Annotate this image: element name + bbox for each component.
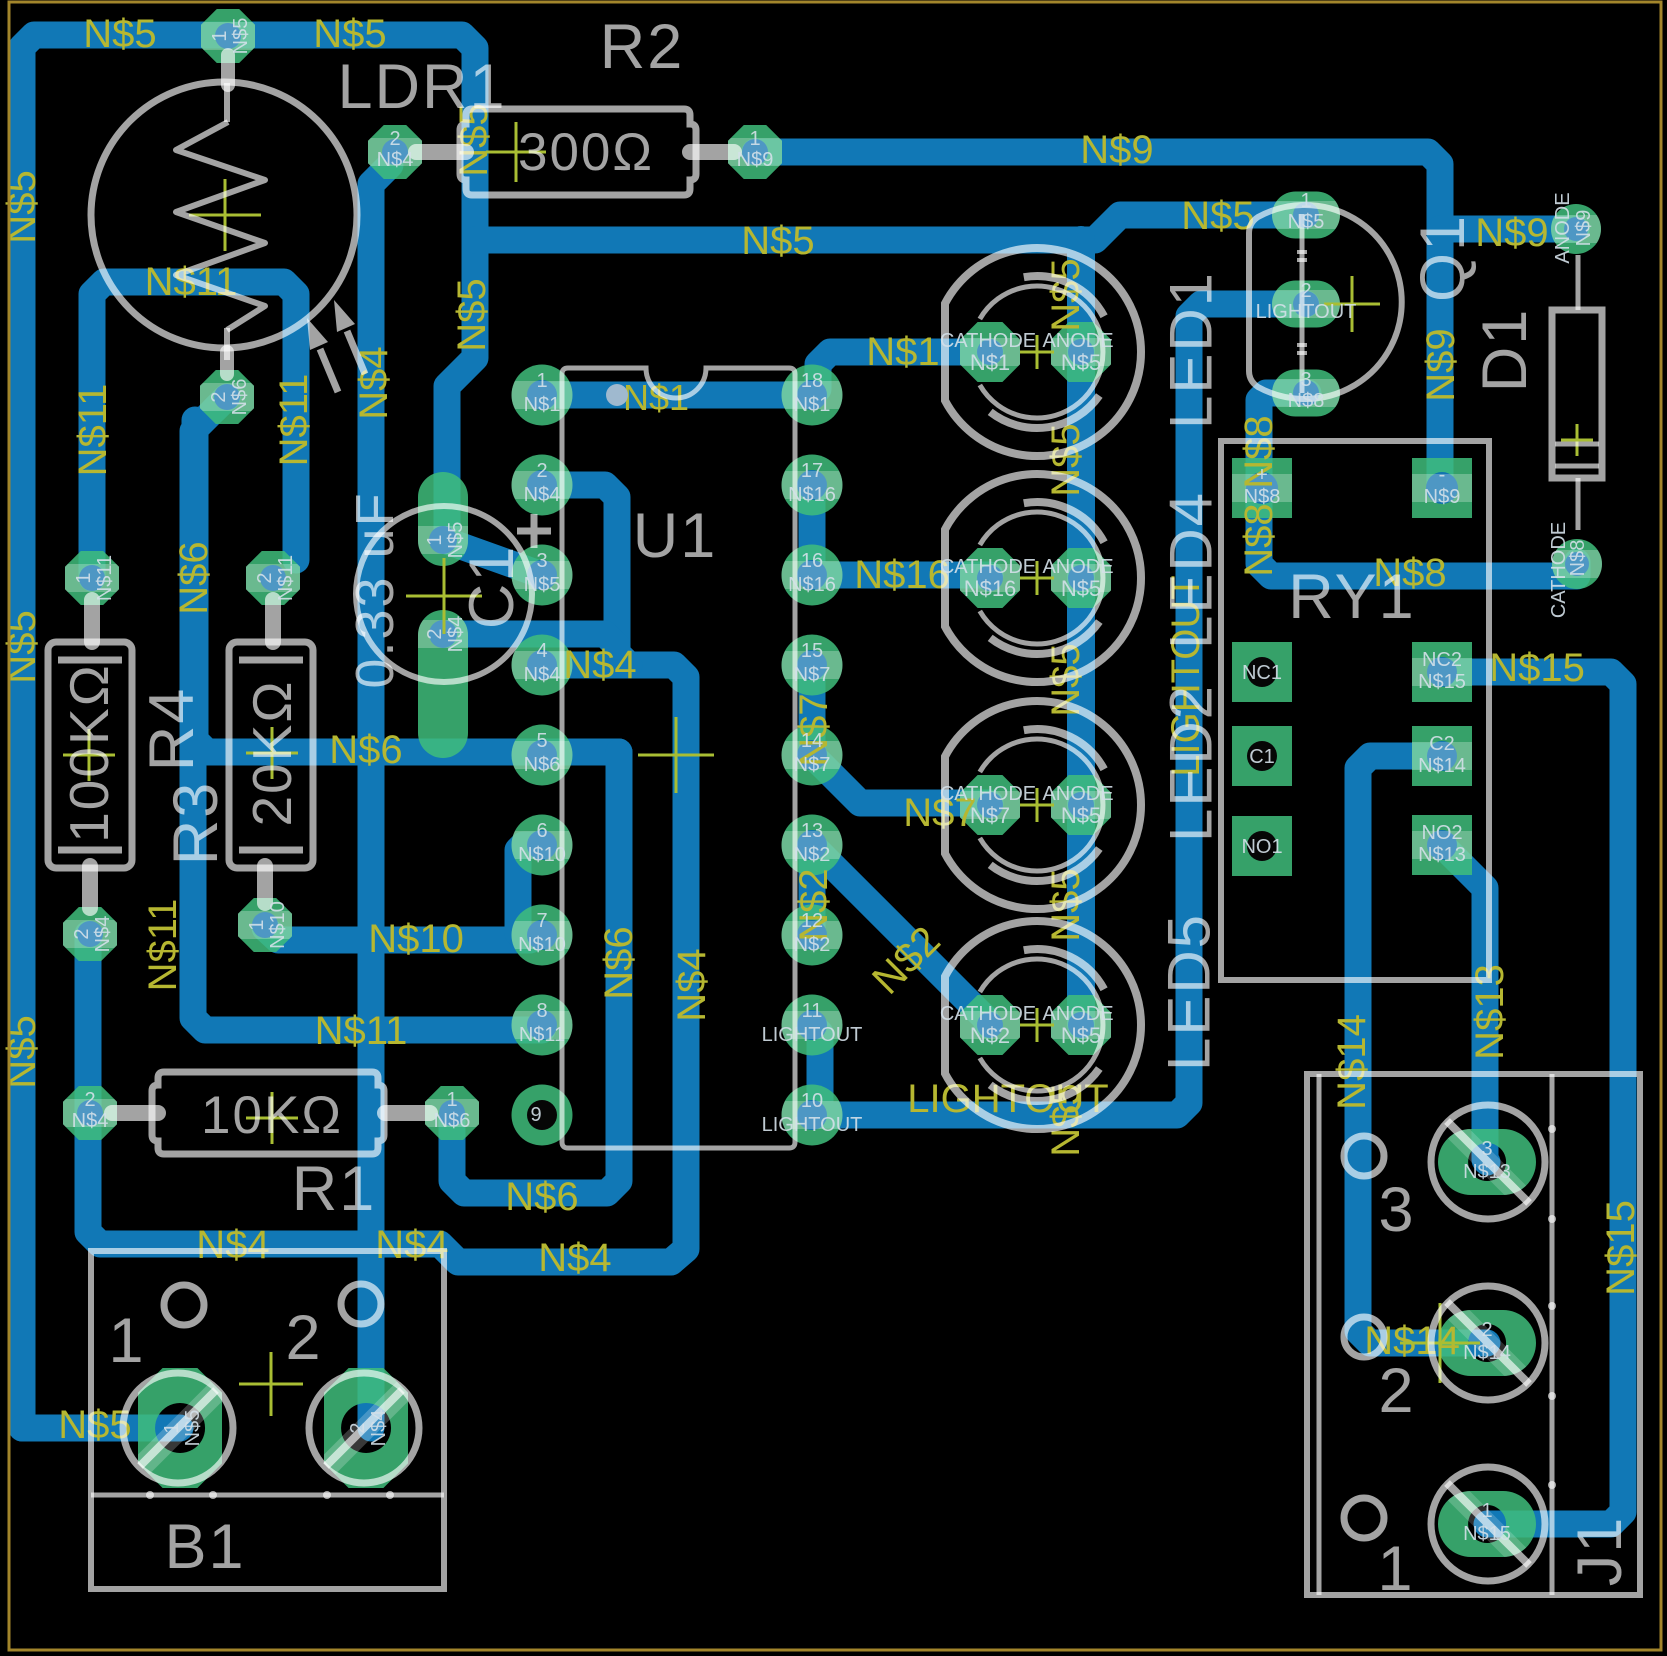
svg-text:11: 11 <box>802 1000 823 1022</box>
svg-text:1: 1 <box>446 1089 457 1111</box>
svg-text:1: 1 <box>1377 1534 1414 1604</box>
svg-text:300Ω: 300Ω <box>518 123 654 182</box>
svg-text:ANODE: ANODE <box>1042 1003 1113 1025</box>
svg-text:N$5: N$5 <box>445 522 467 559</box>
wire N$6 vertical from LDR to pin5 row <box>195 420 619 752</box>
svg-text:N$13: N$13 <box>1463 1161 1511 1183</box>
wire N$10 pin6 jog <box>518 845 542 940</box>
svg-text:ANODE: ANODE <box>1042 556 1113 578</box>
pad LED anode net N$5 <box>1044 322 1118 382</box>
svg-text:N$11: N$11 <box>94 555 116 601</box>
pad LED cathode net N$16 <box>953 548 1027 608</box>
svg-text:2: 2 <box>84 1089 95 1111</box>
pad RY1 NO1 <box>1232 816 1292 876</box>
svg-text:2: 2 <box>254 572 276 583</box>
wire N$5 C1.1 to U1 pin3 <box>444 540 542 575</box>
origin cross R2 <box>486 122 546 182</box>
relay RY1 outline <box>1221 441 1489 980</box>
pad R3.1 net N$10 <box>231 898 299 952</box>
svg-text:N$10: N$10 <box>518 844 566 866</box>
svg-text:2: 2 <box>208 391 230 402</box>
pad J1 pad3 net N$13 <box>1438 1120 1536 1204</box>
svg-text:N$4: N$4 <box>368 1410 390 1447</box>
svg-text:NC1: NC1 <box>1242 662 1282 684</box>
svg-text:N$1: N$1 <box>866 330 939 374</box>
wire N$14 RY1 C2 to J1 pad2 <box>1358 756 1487 1343</box>
svg-text:LIGHTOUT: LIGHTOUT <box>1256 301 1357 323</box>
svg-text:N$6: N$6 <box>172 541 216 614</box>
wire net N$5 left rail / top rail / down to C1.1 <box>22 35 475 1428</box>
svg-text:N$5: N$5 <box>1061 576 1101 601</box>
svg-text:1: 1 <box>749 128 760 150</box>
svg-text:N$5: N$5 <box>1181 194 1254 238</box>
svg-text:N$5: N$5 <box>1061 803 1101 828</box>
wire N$7 pin15-pin14 <box>799 665 826 755</box>
pad LED cathode net N$1 <box>953 322 1027 382</box>
svg-text:N$1: N$1 <box>794 394 831 416</box>
wire N$6 R1.1 to pin5 column <box>452 752 619 1193</box>
svg-text:ANODE: ANODE <box>1552 192 1574 263</box>
svg-text:3: 3 <box>1300 369 1311 391</box>
svg-text:N$9: N$9 <box>1424 486 1461 508</box>
pad U1 pin 12 <box>776 905 849 966</box>
svg-text:N$14: N$14 <box>1418 755 1466 777</box>
svg-text:N$7: N$7 <box>794 664 831 686</box>
origin cross LED <box>1020 788 1054 822</box>
resistor R4 body <box>90 600 92 908</box>
svg-text:3: 3 <box>1481 1138 1492 1160</box>
svg-text:N$15: N$15 <box>1463 1523 1511 1545</box>
svg-text:N$10: N$10 <box>518 934 566 956</box>
svg-text:14: 14 <box>801 730 823 752</box>
J1 pad rings and slashes <box>1431 1105 1545 1219</box>
svg-text:N$16: N$16 <box>854 553 950 597</box>
pad C1.1 net N$5 <box>412 472 474 566</box>
svg-text:N$2: N$2 <box>794 934 831 956</box>
pad U1 pin 9 <box>512 1085 573 1146</box>
svg-text:CATHODE: CATHODE <box>940 556 1036 578</box>
pad R1.2 net N$4 <box>56 1086 124 1140</box>
svg-text:N$9: N$9 <box>1475 211 1548 255</box>
svg-text:N$6: N$6 <box>229 379 251 416</box>
svg-text:D1: D1 <box>1470 308 1540 393</box>
svg-text:N$7: N$7 <box>794 754 831 776</box>
svg-text:R4: R4 <box>137 687 207 772</box>
svg-text:R1: R1 <box>292 1154 377 1224</box>
wire N$6 exit LDR pad2 <box>214 397 227 410</box>
wire LIGHTOUT pin11-pin10 <box>812 1025 820 1115</box>
svg-text:R2: R2 <box>600 12 685 82</box>
svg-text:LIGHTOUT: LIGHTOUT <box>762 1024 863 1046</box>
svg-text:2: 2 <box>389 128 400 150</box>
svg-text:LED2: LED2 <box>1158 684 1225 842</box>
svg-text:N$5: N$5 <box>0 610 44 683</box>
svg-text:+: + <box>1256 464 1268 486</box>
pad R3.2 net N$11 <box>239 551 307 605</box>
origin cross U1 <box>638 717 714 793</box>
origin cross LED <box>1020 561 1054 595</box>
pad U1 pin 4 <box>506 635 579 696</box>
pad U1 pin 3 <box>506 545 579 606</box>
svg-text:18: 18 <box>801 370 823 392</box>
resistor R2 body <box>416 144 734 160</box>
svg-text:1: 1 <box>73 572 95 583</box>
svg-text:CATHODE: CATHODE <box>940 330 1036 352</box>
pad U1 pin 10 <box>776 1085 849 1146</box>
pad Q1.1 net N$5 <box>1266 192 1346 239</box>
origin cross LDR1 <box>189 179 261 251</box>
resistor R3 body <box>265 600 273 903</box>
connector J1 outline <box>1307 1074 1640 1595</box>
wire N$11 LDR pad2 to U1 pin8 <box>193 397 542 1030</box>
svg-text:N$4: N$4 <box>377 149 414 171</box>
svg-text:N$5: N$5 <box>1288 211 1325 233</box>
svg-text:2: 2 <box>285 1303 322 1373</box>
svg-text:R3: R3 <box>161 781 231 866</box>
pad U1 pin 1 <box>506 365 579 426</box>
svg-text:N$9: N$9 <box>1573 210 1595 247</box>
op-amp / IC U1 outline <box>562 368 795 1148</box>
svg-text:N$11: N$11 <box>71 384 115 477</box>
pad J1 pad1 net N$15 <box>1438 1482 1536 1566</box>
svg-text:2: 2 <box>71 928 93 939</box>
svg-text:N$5: N$5 <box>1061 1023 1101 1048</box>
svg-text:ANODE: ANODE <box>1042 783 1113 805</box>
photoresistor LDR1 outline <box>91 82 357 348</box>
svg-text:N$4: N$4 <box>524 664 561 686</box>
pad RY1 NC1 <box>1232 642 1292 702</box>
wire N$2 pin13-pin12 <box>799 845 826 935</box>
pad U1 pin 13 <box>776 815 849 876</box>
wire N$1 U1 pin1-pin18 <box>542 382 812 409</box>
svg-text:N$4: N$4 <box>92 916 114 953</box>
svg-text:N$11: N$11 <box>275 555 297 601</box>
svg-text:C2: C2 <box>1429 733 1455 755</box>
pad RY1 NO2 net N$13 <box>1412 815 1472 875</box>
pad LED anode net N$5 <box>1044 775 1118 835</box>
pad RY1 C1 <box>1232 726 1292 786</box>
svg-text:N$9: N$9 <box>1419 328 1463 401</box>
svg-text:N$1: N$1 <box>970 350 1010 375</box>
svg-text:5: 5 <box>536 730 547 752</box>
pad U1 pin 6 <box>506 815 579 876</box>
pad RY1 C2 net N$14 <box>1412 726 1472 786</box>
pad R2.2 net N$4 <box>361 125 429 179</box>
pad U1 pin 2 <box>506 455 579 516</box>
svg-text:N$8: N$8 <box>1237 503 1281 576</box>
svg-text:N$5: N$5 <box>182 1410 204 1447</box>
svg-text:N$5: N$5 <box>83 12 156 56</box>
svg-text:C1: C1 <box>457 545 527 630</box>
svg-text:LED5: LED5 <box>1156 913 1223 1071</box>
svg-text:N$10: N$10 <box>368 917 464 961</box>
svg-text:9: 9 <box>530 1104 541 1126</box>
svg-text:N$5: N$5 <box>0 170 44 243</box>
wire N$11 R4.1 - R3.2 <box>92 282 296 578</box>
svg-text:N$4: N$4 <box>670 948 714 1021</box>
pad U1 pin 7 <box>506 905 579 966</box>
svg-text:N$6: N$6 <box>434 1110 471 1132</box>
svg-text:Q1: Q1 <box>1408 214 1478 302</box>
svg-text:N$8: N$8 <box>1567 540 1589 577</box>
wire N$1 pin18 to LED1 cathode <box>812 352 990 395</box>
svg-text:N$5: N$5 <box>313 12 386 56</box>
svg-text:7: 7 <box>536 910 547 932</box>
pad U1 pin 18 <box>776 365 849 426</box>
svg-text:4: 4 <box>536 640 547 662</box>
pad U1 pin 8 <box>506 995 579 1056</box>
wire N$2 pin13 to LED5 cathode diagonal <box>812 845 988 1025</box>
svg-text:N$5: N$5 <box>1061 350 1101 375</box>
svg-text:17: 17 <box>801 460 823 482</box>
svg-text:N$2: N$2 <box>794 844 831 866</box>
pad D1 anode net N$9 <box>1545 204 1607 254</box>
svg-text:LIGHTOUT: LIGHTOUT <box>762 1114 863 1136</box>
svg-text:NO1: NO1 <box>1241 836 1282 858</box>
svg-text:N$4: N$4 <box>538 1236 611 1280</box>
svg-text:1: 1 <box>536 370 547 392</box>
wire N$15 RY1 NC2 to J1 pad1 <box>1442 672 1623 1524</box>
diode D1 outline <box>1576 255 1581 530</box>
svg-text:2: 2 <box>1481 1319 1492 1341</box>
pad U1 pin 5 <box>506 725 579 786</box>
svg-text:N$8: N$8 <box>1288 390 1325 412</box>
svg-text:N$4: N$4 <box>72 1110 109 1132</box>
pad U1 pin 17 <box>776 455 849 516</box>
svg-text:3: 3 <box>536 550 547 572</box>
svg-text:N$11: N$11 <box>315 1009 408 1053</box>
svg-text:N$4: N$4 <box>524 484 561 506</box>
svg-text:N$9: N$9 <box>1080 128 1153 172</box>
svg-text:NC2: NC2 <box>1422 649 1462 671</box>
svg-text:2: 2 <box>1300 280 1311 302</box>
svg-text:1: 1 <box>246 919 268 930</box>
svg-text:0.33 uF: 0.33 uF <box>345 491 405 688</box>
wire N$10 R3.1 to U1 pin7 <box>265 928 542 940</box>
svg-text:N$4: N$4 <box>563 643 636 687</box>
pad LDR1.1 net N$5 <box>194 9 262 63</box>
pad B1 pad2 net N$4 <box>321 1368 411 1488</box>
svg-text:1: 1 <box>1300 190 1311 212</box>
svg-text:1: 1 <box>1481 1500 1492 1522</box>
pad R4.2 net N$4 <box>56 907 124 961</box>
origin cross B1 <box>239 1352 303 1416</box>
svg-text:1: 1 <box>161 1422 183 1433</box>
transistor Q1 outline <box>1249 205 1402 399</box>
pad U1 pin 14 <box>776 725 849 786</box>
svg-text:N$4: N$4 <box>375 1223 448 1267</box>
pad C1.2 net N$4 <box>412 610 474 758</box>
pad R1.1 net N$6 <box>418 1086 486 1140</box>
svg-text:2: 2 <box>347 1422 369 1433</box>
wire N$13 RY1 NO2 to J1 pad3 <box>1442 845 1487 1162</box>
svg-text:N$13: N$13 <box>1418 844 1466 866</box>
svg-text:15: 15 <box>801 640 823 662</box>
pad LDR1.2 net N$6 <box>193 370 261 424</box>
svg-text:N$5: N$5 <box>524 574 561 596</box>
pad LED anode net N$5 <box>1044 995 1118 1055</box>
svg-text:16: 16 <box>801 550 823 572</box>
svg-text:N$14: N$14 <box>1463 1342 1511 1364</box>
pad U1 pin 11 <box>776 995 849 1056</box>
svg-text:N$15: N$15 <box>1489 646 1585 690</box>
svg-text:8: 8 <box>536 1000 547 1022</box>
svg-text:NO2: NO2 <box>1421 822 1462 844</box>
svg-text:N$4: N$4 <box>196 1223 269 1267</box>
wire N$4 from R2.2 down to B1 pad2 <box>371 165 390 1428</box>
wire N$5 LED anode column <box>1067 240 1095 1025</box>
svg-text:N$15: N$15 <box>1599 1200 1643 1296</box>
wire N$4 bottom rail / right column / pin4 stub <box>88 665 686 1262</box>
battery connector B1 outline <box>91 1251 444 1589</box>
svg-text:N$6: N$6 <box>597 926 641 999</box>
svg-text:LED1: LED1 <box>1158 271 1225 429</box>
wire LIGHTOUT pin10 to Q1 pad2 <box>812 304 1306 1115</box>
pad LED cathode net N$2 <box>953 995 1027 1055</box>
svg-text:N$14: N$14 <box>1330 1014 1374 1110</box>
origin cross R4 <box>63 729 115 781</box>
pad U1 pin 15 <box>776 635 849 696</box>
svg-text:1: 1 <box>108 1306 145 1376</box>
svg-text:3: 3 <box>1378 1175 1415 1245</box>
pad LED anode net N$5 <box>1044 548 1118 608</box>
wire N$9 to D1 anode <box>1440 216 1576 243</box>
svg-text:N$5: N$5 <box>0 1015 44 1088</box>
svg-text:U1: U1 <box>633 501 718 571</box>
origin cross C1 <box>406 558 482 634</box>
wire N$5 horizontal to Q1 pad1 <box>475 215 1306 240</box>
svg-text:2: 2 <box>424 628 446 639</box>
svg-text:N$16: N$16 <box>964 576 1017 601</box>
svg-text:RY1: RY1 <box>1288 562 1415 632</box>
origin cross J1 <box>1400 1303 1480 1383</box>
svg-text:CATHODE: CATHODE <box>940 783 1036 805</box>
svg-text:B1: B1 <box>164 1512 245 1582</box>
svg-text:N$9: N$9 <box>737 149 774 171</box>
svg-text:N$1: N$1 <box>524 394 561 416</box>
svg-text:N$5: N$5 <box>230 18 252 55</box>
LED outlines LED1 LED4 LED2 LED5 <box>945 248 1141 456</box>
svg-text:6: 6 <box>536 820 547 842</box>
wire N$4 U1 pin2 jog <box>542 485 629 665</box>
svg-text:N$7: N$7 <box>970 803 1010 828</box>
wire N$16 pin16 to LED2 cathode <box>812 562 990 589</box>
svg-text:J1: J1 <box>1565 1516 1635 1587</box>
pad R4.1 net N$11 <box>58 551 126 605</box>
svg-text:N$15: N$15 <box>1418 671 1466 693</box>
origin cross LED <box>1020 335 1054 369</box>
wire N$7 pin14 to LED3 cathode <box>812 755 990 803</box>
svg-text:10: 10 <box>801 1090 823 1112</box>
resistor R1 body <box>112 1105 430 1121</box>
pad RY1 + net N$8 <box>1232 458 1292 518</box>
svg-text:13: 13 <box>801 820 823 842</box>
wire N$5 to B1 pad1 <box>22 1415 180 1442</box>
svg-text:N$6: N$6 <box>329 728 402 772</box>
svg-text:C1: C1 <box>1249 746 1275 768</box>
origin cross LED <box>1020 1008 1054 1042</box>
svg-text:N$6: N$6 <box>505 1175 578 1219</box>
svg-text:CATHODE: CATHODE <box>940 1003 1036 1025</box>
svg-text:-: - <box>1439 464 1446 486</box>
svg-text:N$8: N$8 <box>1244 486 1281 508</box>
origin cross R3 <box>246 727 298 779</box>
svg-text:N$6: N$6 <box>524 754 561 776</box>
wire N$4 from C1.2 to column <box>443 634 617 646</box>
svg-text:N$2: N$2 <box>970 1023 1010 1048</box>
pad LED cathode net N$7 <box>953 775 1027 835</box>
pad D1 cathode net N$8 <box>1546 539 1608 589</box>
svg-text:N$11: N$11 <box>272 374 316 467</box>
svg-text:100KΩ: 100KΩ <box>58 663 120 843</box>
wire N$8 Q1 pad3 via RY1 plus pad to D1 cathode <box>1259 393 1577 576</box>
pad U1 pin 16 <box>776 545 849 606</box>
capacitor C1 outline <box>356 506 532 682</box>
wire N$16 pin17-pin16 <box>799 485 826 575</box>
svg-text:LDR1: LDR1 <box>337 52 506 122</box>
pad R2.1 net N$9 <box>721 125 789 179</box>
pad RY1 - net N$9 <box>1412 458 1472 518</box>
B1 pad rings and slashes <box>123 1373 233 1483</box>
pad RY1 NC2 net N$15 <box>1412 642 1472 702</box>
svg-text:2: 2 <box>1378 1356 1415 1426</box>
svg-text:N$4: N$4 <box>445 616 467 653</box>
svg-text:N$16: N$16 <box>788 484 836 506</box>
svg-text:12: 12 <box>801 910 823 932</box>
svg-text:N$10: N$10 <box>267 901 289 949</box>
pad Q1.2 net LIGHTOUT <box>1266 281 1346 328</box>
pad Q1.3 net N$8 <box>1266 370 1346 417</box>
svg-text:N$11: N$11 <box>519 1024 565 1046</box>
wire N$9 R2.1 to RY1 minus pad <box>755 152 1440 488</box>
pad B1 pad1 net N$5 <box>135 1368 225 1488</box>
svg-text:1: 1 <box>424 534 446 545</box>
origin cross Q1 <box>1324 276 1380 332</box>
svg-text:N$5: N$5 <box>450 278 494 351</box>
svg-text:2: 2 <box>536 460 547 482</box>
svg-text:ANODE: ANODE <box>1042 330 1113 352</box>
origin cross R1 <box>246 1092 298 1144</box>
origin cross D1 <box>1561 424 1593 456</box>
svg-text:N$11: N$11 <box>141 899 185 992</box>
svg-text:LED4: LED4 <box>1158 491 1225 649</box>
svg-text:20KΩ: 20KΩ <box>241 680 303 827</box>
LDR1 light arrows <box>320 331 365 392</box>
svg-text:1: 1 <box>209 30 231 41</box>
svg-text:N$5: N$5 <box>741 219 814 263</box>
svg-text:N$16: N$16 <box>788 574 836 596</box>
pad J1 pad2 net N$14 <box>1438 1301 1536 1385</box>
svg-text:10KΩ: 10KΩ <box>201 1086 343 1145</box>
